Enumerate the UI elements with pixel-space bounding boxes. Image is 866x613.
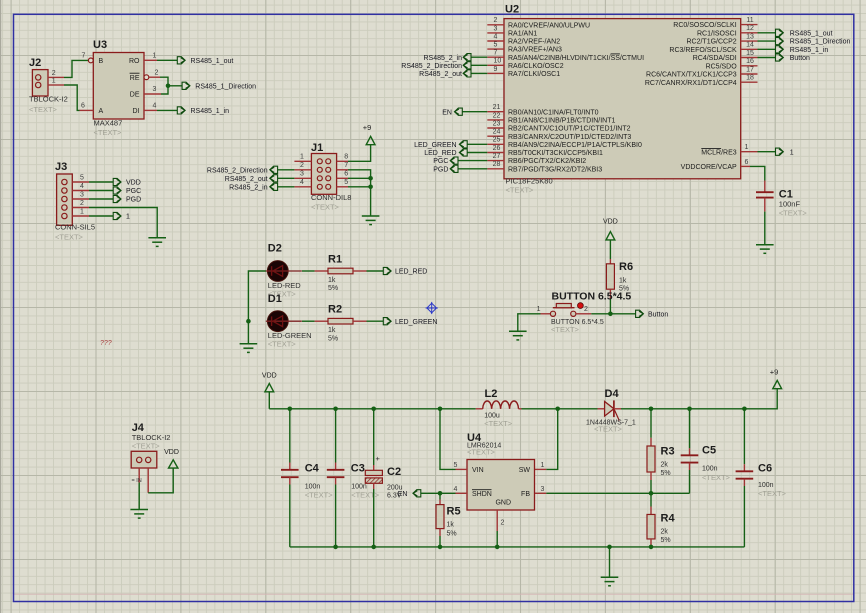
svg-text:PIC18F25K80: PIC18F25K80 xyxy=(506,176,553,185)
svg-text:4: 4 xyxy=(300,179,304,186)
svg-text:U3: U3 xyxy=(93,39,107,51)
svg-text:100n: 100n xyxy=(702,465,718,472)
svg-text:RB4/AN9/C2INA/ECCP1/P1A/CTPLS/: RB4/AN9/C2INA/ECCP1/P1A/CTPLS/KBI0 xyxy=(508,142,642,149)
svg-text:<TEXT>: <TEXT> xyxy=(594,425,623,434)
svg-text:200u: 200u xyxy=(387,484,403,491)
svg-text:7: 7 xyxy=(344,162,348,169)
svg-text:D2: D2 xyxy=(268,243,282,255)
svg-text:Button: Button xyxy=(790,55,810,62)
svg-text:1: 1 xyxy=(790,149,794,156)
svg-text:1k: 1k xyxy=(328,327,336,334)
svg-text:RB1/AN8/C1INB/P1B/CTDIN/INT1: RB1/AN8/C1INB/P1B/CTDIN/INT1 xyxy=(508,118,615,125)
svg-text:C2: C2 xyxy=(387,466,401,478)
svg-text:RA3/VREF+/AN3: RA3/VREF+/AN3 xyxy=(508,47,562,54)
svg-text:6: 6 xyxy=(344,171,348,178)
svg-text:CONN-DIL8: CONN-DIL8 xyxy=(311,193,351,202)
svg-text:RC4/SDA/SDI: RC4/SDA/SDI xyxy=(693,55,737,62)
svg-text:RS485_1_Direction: RS485_1_Direction xyxy=(195,83,256,90)
svg-text:RC2/T1G/CCP2: RC2/T1G/CCP2 xyxy=(687,39,737,46)
svg-text:RO: RO xyxy=(129,58,140,65)
svg-text:SHDN: SHDN xyxy=(472,491,492,498)
svg-text:RS485_2_out: RS485_2_out xyxy=(419,71,462,78)
svg-text:7: 7 xyxy=(82,53,86,60)
svg-text:D1: D1 xyxy=(268,293,282,305)
svg-text:PGD: PGD xyxy=(126,197,141,204)
svg-text:SW: SW xyxy=(519,467,531,474)
svg-text:J1: J1 xyxy=(311,142,323,154)
svg-text:<TEXT>: <TEXT> xyxy=(506,185,535,194)
svg-text:<TEXT>: <TEXT> xyxy=(467,448,496,457)
svg-text:28: 28 xyxy=(493,161,501,168)
svg-text:???: ??? xyxy=(100,340,112,347)
svg-text:<TEXT>: <TEXT> xyxy=(29,105,58,114)
svg-text:<TEXT>: <TEXT> xyxy=(551,325,580,334)
svg-text:2k: 2k xyxy=(661,528,669,535)
svg-text:LED_RED: LED_RED xyxy=(395,269,427,276)
svg-text:VDD: VDD xyxy=(164,449,179,456)
svg-text:BUTTON 6.5*4.5: BUTTON 6.5*4.5 xyxy=(552,291,632,303)
svg-text:R3: R3 xyxy=(661,446,675,458)
svg-text:17: 17 xyxy=(746,66,754,73)
svg-text:RB0/AN10/C1INA/FLT0/INT0: RB0/AN10/C1INA/FLT0/INT0 xyxy=(508,109,599,116)
svg-text:5: 5 xyxy=(454,462,458,469)
svg-text:<TEXT>: <TEXT> xyxy=(351,491,380,500)
svg-text:RC3/REFO/SCL/SCK: RC3/REFO/SCL/SCK xyxy=(669,47,737,54)
svg-text:3: 3 xyxy=(300,171,304,178)
svg-text:18: 18 xyxy=(746,75,754,82)
svg-text:8: 8 xyxy=(344,154,348,161)
svg-text:R1: R1 xyxy=(328,254,342,266)
svg-text:R2: R2 xyxy=(328,304,342,316)
svg-text:1: 1 xyxy=(52,78,56,85)
svg-text:2: 2 xyxy=(494,17,498,24)
svg-text:RE: RE xyxy=(130,75,140,82)
svg-text:5: 5 xyxy=(344,179,348,186)
svg-text:RA0/CVREF/AN0/ULPWU: RA0/CVREF/AN0/ULPWU xyxy=(508,22,590,29)
svg-text:RA1/AN1: RA1/AN1 xyxy=(508,31,537,38)
svg-text:22: 22 xyxy=(493,112,501,119)
svg-text:<TEXT>: <TEXT> xyxy=(311,203,340,212)
svg-text:1: 1 xyxy=(745,144,749,151)
svg-text:5%: 5% xyxy=(328,335,338,342)
svg-text:4: 4 xyxy=(494,33,498,40)
svg-text:VDD: VDD xyxy=(262,372,277,379)
svg-text:5: 5 xyxy=(494,42,498,49)
svg-text:RS485_1_in: RS485_1_in xyxy=(191,108,230,115)
svg-text:RB5/T0CKI/T3CKI/CCP5/KBI1: RB5/T0CKI/T3CKI/CCP5/KBI1 xyxy=(508,150,603,157)
svg-text:7: 7 xyxy=(494,50,498,57)
svg-text:RC5/SDO: RC5/SDO xyxy=(706,63,738,70)
svg-text:+9: +9 xyxy=(363,123,372,132)
svg-text:Button: Button xyxy=(648,311,668,318)
svg-text:1k: 1k xyxy=(328,277,336,284)
svg-text:5%: 5% xyxy=(328,285,338,292)
svg-text:FB: FB xyxy=(521,491,530,498)
svg-text:11: 11 xyxy=(746,17,753,24)
svg-text:RS485_2_in: RS485_2_in xyxy=(423,55,462,62)
svg-text:RA5/AN4/C2INB/HLVDIN/T1CKI/SS/: RA5/AN4/C2INB/HLVDIN/T1CKI/SS/CTMUI xyxy=(508,55,644,62)
svg-text:<TEXT>: <TEXT> xyxy=(779,209,808,218)
svg-text:D4: D4 xyxy=(605,388,620,400)
svg-text:PGD: PGD xyxy=(433,166,448,173)
svg-text:RC0/SOSCO/SCLKI: RC0/SOSCO/SCLKI xyxy=(673,22,736,29)
svg-text:RB3/CANRX/C2OUT/P1D/CTED2/INT3: RB3/CANRX/C2OUT/P1D/CTED2/INT3 xyxy=(508,134,631,141)
svg-text:RS485_1_out: RS485_1_out xyxy=(790,30,833,37)
svg-text:5%: 5% xyxy=(447,530,457,537)
svg-text:2: 2 xyxy=(52,70,56,77)
svg-text:15: 15 xyxy=(746,50,754,57)
svg-text:RS485_2_in: RS485_2_in xyxy=(229,184,268,191)
svg-text:LED_RED: LED_RED xyxy=(424,150,456,157)
svg-text:U2: U2 xyxy=(505,4,519,16)
svg-text:GND: GND xyxy=(495,499,511,506)
svg-text:J2: J2 xyxy=(29,57,41,69)
svg-text:TBLOCK-I2: TBLOCK-I2 xyxy=(29,95,68,104)
svg-text:C4: C4 xyxy=(305,463,320,475)
svg-text:DE: DE xyxy=(130,92,140,99)
svg-text:25: 25 xyxy=(493,137,501,144)
svg-text:2k: 2k xyxy=(661,461,669,468)
svg-text:C6: C6 xyxy=(758,463,772,475)
svg-text:5%: 5% xyxy=(661,537,671,544)
svg-text:VDD: VDD xyxy=(126,180,141,187)
svg-text:C5: C5 xyxy=(702,445,716,457)
svg-text:RC6/CANTX/TX1/CK1/CCP3: RC6/CANTX/TX1/CK1/CCP3 xyxy=(646,72,737,79)
svg-text:RS485_2_Direction: RS485_2_Direction xyxy=(207,167,268,174)
svg-text:1: 1 xyxy=(80,208,84,215)
svg-text:1: 1 xyxy=(537,306,541,313)
svg-text:6: 6 xyxy=(745,159,749,166)
svg-text:13: 13 xyxy=(746,34,754,41)
svg-text:RA7/CLKI/OSC1: RA7/CLKI/OSC1 xyxy=(508,71,560,78)
svg-text:2: 2 xyxy=(155,70,159,77)
svg-text:4: 4 xyxy=(454,486,458,493)
svg-text:MAX487: MAX487 xyxy=(94,119,123,128)
svg-text:1: 1 xyxy=(300,154,304,161)
svg-text:<TEXT>: <TEXT> xyxy=(305,491,334,500)
svg-text:<TEXT>: <TEXT> xyxy=(758,489,787,498)
svg-text:R6: R6 xyxy=(619,261,633,273)
svg-text:<TEXT>: <TEXT> xyxy=(94,128,123,137)
svg-text:12: 12 xyxy=(746,25,754,32)
svg-text:2: 2 xyxy=(584,306,588,313)
svg-text:2: 2 xyxy=(300,162,304,169)
svg-text:9: 9 xyxy=(494,66,498,73)
svg-text:J3: J3 xyxy=(55,161,67,173)
svg-text:2: 2 xyxy=(501,520,505,527)
svg-text:CONN-SIL5: CONN-SIL5 xyxy=(55,223,95,232)
svg-text:2: 2 xyxy=(80,200,84,207)
svg-text:VDDCORE/VCAP: VDDCORE/VCAP xyxy=(681,164,737,171)
svg-text:EN: EN xyxy=(442,109,452,116)
svg-text:100n: 100n xyxy=(305,484,321,491)
svg-text:100nF: 100nF xyxy=(779,200,801,209)
svg-text:3: 3 xyxy=(153,86,157,93)
svg-text:RB2/CANTX/C1OUT/P1C/CTED1/INT2: RB2/CANTX/C1OUT/P1C/CTED1/INT2 xyxy=(508,126,631,133)
svg-text:MCLR/RE3: MCLR/RE3 xyxy=(701,149,737,156)
svg-text:1: 1 xyxy=(126,214,130,221)
svg-text:3: 3 xyxy=(494,25,498,32)
svg-text:<TEXT>: <TEXT> xyxy=(132,441,161,450)
svg-text:4: 4 xyxy=(80,183,84,190)
svg-text:RS485_2_Direction: RS485_2_Direction xyxy=(401,63,462,70)
svg-text:C3: C3 xyxy=(351,463,365,475)
svg-text:DI: DI xyxy=(133,108,140,115)
svg-text:3: 3 xyxy=(541,486,545,493)
svg-text:6.3V: 6.3V xyxy=(387,493,402,500)
svg-text:RA2/VREF-/AN2: RA2/VREF-/AN2 xyxy=(508,39,560,46)
svg-text:RS485_1_in: RS485_1_in xyxy=(790,47,829,54)
svg-text:4: 4 xyxy=(153,103,157,110)
svg-text:1k: 1k xyxy=(619,277,627,284)
svg-text:1: 1 xyxy=(541,462,545,469)
svg-text:14: 14 xyxy=(746,42,754,49)
svg-text:VDD: VDD xyxy=(603,218,618,225)
svg-text:100n: 100n xyxy=(351,484,367,491)
svg-text:A: A xyxy=(99,108,104,115)
svg-text:1k: 1k xyxy=(447,522,455,529)
svg-text:100n: 100n xyxy=(758,482,774,489)
svg-text:<TEXT>: <TEXT> xyxy=(55,233,84,242)
svg-text:RB7/PGD/T3G/RX2/DT2/KBI3: RB7/PGD/T3G/RX2/DT2/KBI3 xyxy=(508,166,602,173)
svg-text:16: 16 xyxy=(746,58,754,65)
svg-text:3: 3 xyxy=(80,191,84,198)
svg-text:24: 24 xyxy=(493,129,501,136)
svg-text:PGC: PGC xyxy=(433,158,448,165)
svg-text:6: 6 xyxy=(81,103,85,110)
svg-text:+9: +9 xyxy=(770,367,779,376)
svg-text:LED_GREEN: LED_GREEN xyxy=(414,142,456,149)
svg-text:L2: L2 xyxy=(485,388,498,400)
svg-text:R4: R4 xyxy=(661,513,676,525)
svg-text:<TEXT>: <TEXT> xyxy=(268,340,297,349)
svg-text:5: 5 xyxy=(80,174,84,181)
svg-text:+: + xyxy=(376,454,381,463)
svg-text:= IN: = IN xyxy=(132,478,142,484)
svg-text:<TEXT>: <TEXT> xyxy=(702,473,731,482)
svg-text:RS485_1_Direction: RS485_1_Direction xyxy=(790,39,851,46)
svg-text:26: 26 xyxy=(493,145,501,152)
svg-text:LED_GREEN: LED_GREEN xyxy=(395,319,437,326)
svg-text:RC1/ISOSCI: RC1/ISOSCI xyxy=(697,30,737,37)
svg-text:RS485_2_out: RS485_2_out xyxy=(225,176,268,183)
svg-text:1: 1 xyxy=(153,53,157,60)
svg-text:VIN: VIN xyxy=(472,467,484,474)
svg-text:21: 21 xyxy=(493,104,501,111)
svg-text:RA6/CLKO/OSC2: RA6/CLKO/OSC2 xyxy=(508,63,564,70)
svg-text:<TEXT>: <TEXT> xyxy=(484,419,513,428)
svg-text:27: 27 xyxy=(493,153,501,160)
svg-text:B: B xyxy=(99,58,104,65)
svg-text:23: 23 xyxy=(493,120,501,127)
svg-text:PGC: PGC xyxy=(126,188,141,195)
svg-text:RB6/PGC/TX2/CK2/KBI2: RB6/PGC/TX2/CK2/KBI2 xyxy=(508,158,586,165)
svg-text:5%: 5% xyxy=(661,470,671,477)
svg-text:R5: R5 xyxy=(447,506,461,518)
svg-text:10: 10 xyxy=(494,58,502,65)
svg-text:RC7/CANRX/RX1/DT1/CCP4: RC7/CANRX/RX1/DT1/CCP4 xyxy=(645,80,737,87)
svg-text:RS485_1_out: RS485_1_out xyxy=(191,58,234,65)
